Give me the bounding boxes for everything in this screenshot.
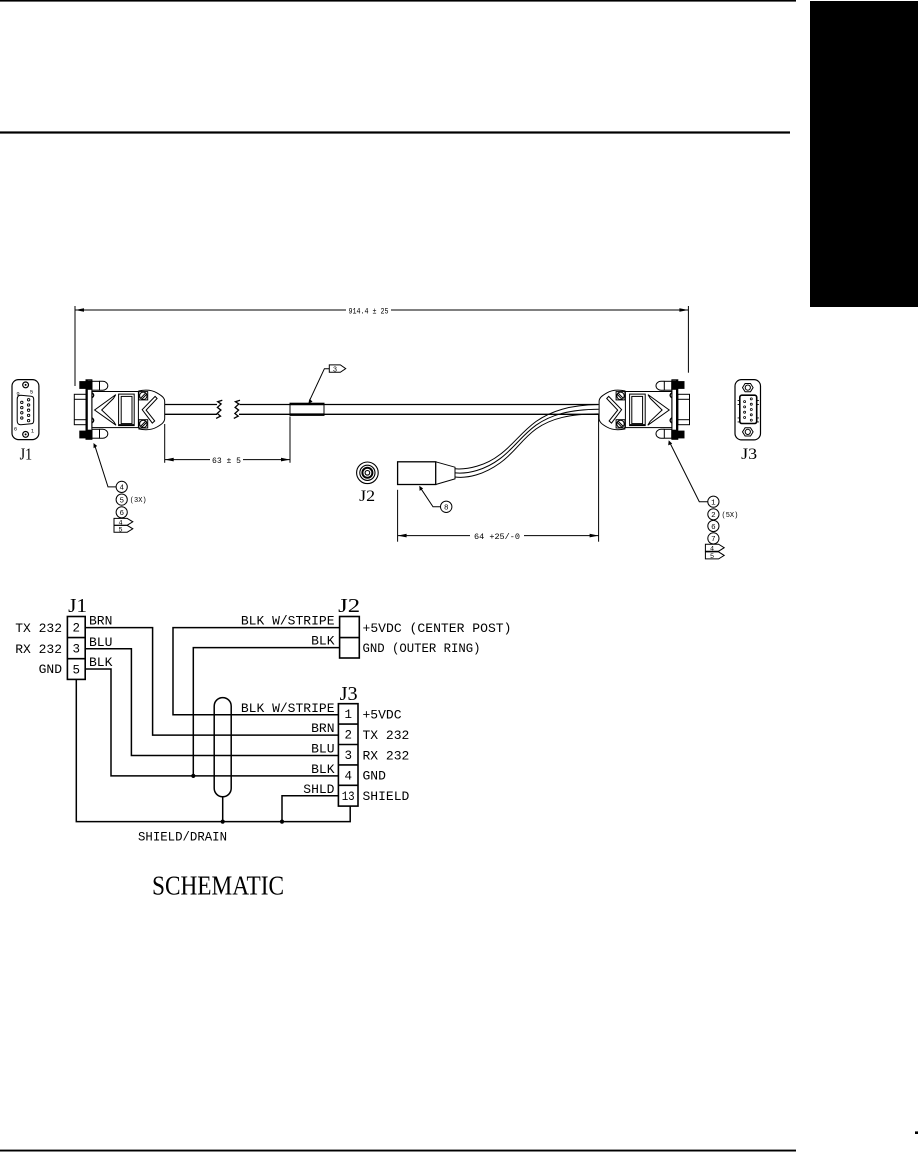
svg-text:BLK: BLK xyxy=(311,762,335,777)
boot chevron xyxy=(142,396,157,423)
svg-text:(3X): (3X) xyxy=(130,497,147,505)
svg-text:BLK W/STRIPE: BLK W/STRIPE xyxy=(241,701,335,716)
J1 pins xyxy=(21,399,30,422)
dimension 914.4 ± 25 extension line left xyxy=(74,306,76,386)
svg-text:+5VDC (CENTER POST): +5VDC (CENTER POST) xyxy=(363,621,512,636)
dimension 64 +25/-0 extension lines xyxy=(397,490,399,542)
svg-text:SHIELD: SHIELD xyxy=(363,789,410,804)
balloon 1 (right) xyxy=(708,496,719,507)
J3 pins xyxy=(744,398,753,421)
cable segment left xyxy=(165,405,217,415)
cable segment right xyxy=(324,405,599,415)
body chevron xyxy=(95,395,116,426)
dimension 63 ± 5 extension lines xyxy=(164,424,166,463)
svg-text:GND: GND xyxy=(363,769,387,784)
label window xyxy=(119,394,135,426)
leader to right balloons xyxy=(668,440,708,502)
svg-text:BRN: BRN xyxy=(311,721,334,736)
flange bosses xyxy=(92,393,94,423)
dimension 914.4 ± 25 line xyxy=(75,309,688,311)
cable segment middle xyxy=(239,405,290,415)
svg-text:6: 6 xyxy=(119,510,124,518)
wire shield drain J1 to J3 xyxy=(76,679,350,821)
balloon 4 (left) xyxy=(116,481,127,492)
svg-text:3: 3 xyxy=(333,366,337,374)
junction drain/loop xyxy=(221,820,225,824)
connector J1 side view (backshell) xyxy=(74,380,164,440)
J3 hex nut top xyxy=(743,384,754,392)
wire BLK J2 to GND node xyxy=(193,648,339,776)
wire BLU J1-3 to J3-3 xyxy=(85,649,338,756)
dimension 914.4 ± 25 extension line right xyxy=(687,306,689,373)
J3 insert xyxy=(740,395,757,423)
power plug P1 body xyxy=(398,462,455,485)
svg-text:1: 1 xyxy=(31,428,35,435)
svg-text:GND (OUTER RING): GND (OUTER RING) xyxy=(363,641,481,656)
dimension 914.4 ± 25 arrowheads xyxy=(75,308,688,312)
svg-text:8: 8 xyxy=(444,505,449,513)
svg-text:TX 232: TX 232 xyxy=(15,621,62,636)
dimension 64 +25/-0 line xyxy=(398,535,599,537)
svg-text:5: 5 xyxy=(30,389,33,396)
svg-text:6: 6 xyxy=(711,524,716,532)
wire BLK J1-5 to J3-4 xyxy=(85,669,338,776)
svg-text:+5VDC: +5VDC xyxy=(363,708,402,723)
dimension 63 ± 5 line xyxy=(165,459,290,461)
boot xyxy=(138,390,164,429)
svg-text:GND: GND xyxy=(39,662,63,677)
bottom right tick xyxy=(915,1131,918,1134)
connector block J1 xyxy=(67,617,85,680)
J1 pin numbers xyxy=(14,389,35,435)
wire SHLD J3-13 xyxy=(282,796,338,822)
svg-text:J2: J2 xyxy=(338,595,360,617)
svg-text:BRN: BRN xyxy=(89,614,112,629)
balloon 6 (right) xyxy=(708,520,719,531)
wire BRN J1-2 to J3-2 xyxy=(85,628,338,736)
balloon 7 (right) xyxy=(708,533,719,544)
svg-text:SHIELD/DRAIN: SHIELD/DRAIN xyxy=(138,830,227,845)
J1 screw hole top xyxy=(23,382,29,388)
cable break left xyxy=(216,400,222,418)
flag 5 (right) xyxy=(705,552,724,559)
svg-text:2: 2 xyxy=(73,622,81,636)
svg-text:9: 9 xyxy=(16,390,19,397)
svg-text:5: 5 xyxy=(119,497,124,505)
svg-text:2: 2 xyxy=(344,729,352,743)
connector block J2 xyxy=(340,617,360,659)
svg-text:J2: J2 xyxy=(359,488,375,505)
balloon 6 (left) xyxy=(116,507,127,518)
svg-text:BLK W/STRIPE: BLK W/STRIPE xyxy=(241,614,335,629)
svg-text:6: 6 xyxy=(14,426,17,433)
svg-text:1: 1 xyxy=(344,708,352,722)
page top rule xyxy=(0,0,796,2)
svg-text:J1: J1 xyxy=(20,445,33,464)
svg-text:3: 3 xyxy=(73,643,81,657)
svg-text:1: 1 xyxy=(711,500,716,508)
shield loop xyxy=(214,698,231,797)
J1 screw hole bottom xyxy=(23,432,29,438)
svg-text:J3: J3 xyxy=(340,683,358,705)
svg-text:7: 7 xyxy=(711,536,716,544)
cable break right xyxy=(234,400,240,418)
connector block J3 xyxy=(338,704,358,806)
svg-text:63 ± 5: 63 ± 5 xyxy=(212,457,241,466)
flag 5 (left) xyxy=(114,525,133,532)
mating face xyxy=(74,394,86,424)
bottom rule xyxy=(0,1150,796,1152)
J1 D-sub insert xyxy=(17,395,34,425)
junction GND/BLK xyxy=(191,774,195,778)
boot screw top xyxy=(139,392,148,400)
shell body xyxy=(92,392,138,428)
connector J1 face view xyxy=(12,380,39,440)
balloon 5 (left) xyxy=(116,494,127,505)
balloon 2 (right) xyxy=(708,509,719,520)
svg-text:BLK: BLK xyxy=(89,655,113,670)
svg-text:TX 232: TX 232 xyxy=(363,728,410,743)
svg-text:J1: J1 xyxy=(68,595,87,617)
wire BLK W/STRIPE J2 to J3-1 xyxy=(173,628,340,715)
svg-text:4: 4 xyxy=(344,769,352,783)
svg-text:J3: J3 xyxy=(741,446,757,463)
svg-text:SCHEMATIC: SCHEMATIC xyxy=(152,871,284,901)
corner black box xyxy=(810,1,918,307)
svg-text:914.4 ± 25: 914.4 ± 25 xyxy=(349,307,389,316)
flag 4 (right) xyxy=(705,544,724,551)
svg-text:5: 5 xyxy=(710,553,714,561)
svg-text:5: 5 xyxy=(118,526,122,534)
flange xyxy=(86,380,92,440)
connector J3 face view xyxy=(735,380,761,440)
J3 hex nut bottom xyxy=(743,428,754,436)
svg-text:SHLD: SHLD xyxy=(303,782,334,797)
thumbscrew bottom xyxy=(80,431,86,438)
svg-text:3: 3 xyxy=(344,749,352,763)
header rule xyxy=(0,131,790,133)
heat shrink band (item 3) xyxy=(290,403,324,415)
svg-text:5: 5 xyxy=(73,663,81,677)
svg-text:BLK: BLK xyxy=(311,634,335,649)
leader to left balloons xyxy=(94,443,117,487)
connector J3 side view (mirrored backshell) xyxy=(599,380,689,440)
svg-text:BLU: BLU xyxy=(311,742,334,757)
svg-text:4: 4 xyxy=(119,485,124,493)
boot screw bottom xyxy=(139,420,148,428)
svg-text:(5X): (5X) xyxy=(722,512,739,520)
balloon 8 xyxy=(419,486,452,513)
flag 4 (left) xyxy=(114,518,133,525)
jack J2 face view xyxy=(357,462,379,484)
svg-text:RX 232: RX 232 xyxy=(363,748,410,763)
junction drain/SHLD xyxy=(280,820,284,824)
svg-text:BLU: BLU xyxy=(89,635,112,650)
svg-text:64 +25/-0: 64 +25/-0 xyxy=(474,533,520,542)
flag 3 xyxy=(308,365,345,404)
svg-text:RX 232: RX 232 xyxy=(15,642,62,657)
thumbscrew top xyxy=(80,382,86,389)
svg-text:2: 2 xyxy=(711,512,716,520)
svg-text:13: 13 xyxy=(342,790,355,804)
power cable S-curve xyxy=(455,405,599,478)
flag 3 leader xyxy=(309,369,329,402)
wire shield loop to drain xyxy=(222,797,224,822)
